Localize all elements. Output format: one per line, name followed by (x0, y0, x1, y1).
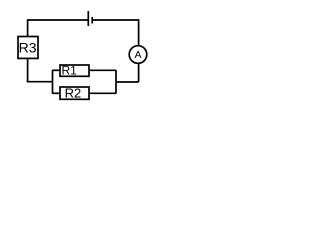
wire middle left segment (27, 81, 53, 83)
svg-text:A: A (134, 49, 141, 61)
svg-text:R1: R1 (62, 64, 78, 78)
svg-text:R2: R2 (65, 86, 82, 101)
wire right vertical lower (138, 64, 140, 82)
wire top-right segment (92, 19, 138, 21)
wire R2 left stub (53, 92, 61, 94)
wire left vertical lower (27, 58, 29, 82)
resistor R2 body (60, 87, 89, 99)
node left junction bar (52, 70, 54, 94)
resistor R1 body (60, 65, 89, 76)
battery B1 long plate (87, 11, 89, 26)
wire right vertical upper (138, 19, 140, 45)
resistor R3 body (18, 37, 38, 59)
node right junction bar (115, 70, 117, 94)
wire R2 right stub (89, 92, 116, 94)
wire middle right segment (116, 81, 139, 83)
wire top-left segment (28, 19, 89, 21)
wire R1 right stub (89, 69, 116, 71)
battery B1 short plate (91, 17, 93, 24)
svg-text:R3: R3 (19, 39, 37, 55)
wire left vertical upper (27, 19, 29, 36)
wire R1 left stub (53, 69, 61, 71)
ammeter A1 circle (129, 46, 147, 64)
